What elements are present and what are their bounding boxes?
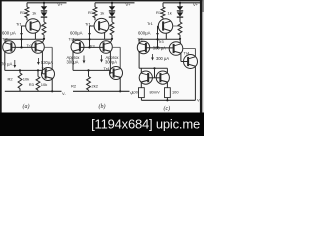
svg-text:1k: 1k: [168, 10, 172, 15]
wire: (b) R1 top lead: [94, 3, 96, 7]
wire: (c) vertical base bias wire with 600uA arrow: [157, 26, 159, 48]
node: (c) diode branch bottom junction: [179, 38, 181, 40]
diode chain (b): top connection: [111, 3, 113, 6]
svg-text:R3: R3: [29, 82, 35, 87]
resistor R2 (b): [88, 70, 90, 76]
wire: (c) R1 to Tr1 collector: [162, 18, 164, 20]
wire: (c) base drop to Tr5/Tr6: [154, 68, 156, 78]
wire: (b) vertical base bias wire with 600uA arrow: [89, 26, 91, 47]
svg-text:V+: V+: [126, 2, 132, 7]
paper background: [0, 0, 204, 136]
wire: (c) left resistor to rail: [140, 98, 142, 101]
svg-text:Tr4: Tr4: [42, 66, 49, 71]
wire: circuit (c) V+ top rail: [163, 2, 202, 4]
wire: circuit (a) V+ top rail: [27, 2, 67, 4]
wire: circuit (b) V+ top rail: [95, 2, 135, 4]
photo frame top edge: [0, 0, 204, 1]
svg-text:Tr3: Tr3: [158, 40, 164, 44]
diode chain (c): top connection: [179, 3, 181, 6]
svg-text:600μA: 600μA: [138, 30, 151, 35]
svg-text:2k2: 2k2: [92, 84, 99, 89]
wire: (c) Tr2 collector up: [138, 39, 140, 43]
node: (a) R2 top junction: [19, 69, 21, 71]
svg-text:Tr4: Tr4: [104, 66, 111, 71]
wire: (a) Tr1 right stub to diode branch: [40, 25, 44, 27]
wire: (b) Tr4 collector up: [119, 47, 121, 68]
wire: (c) resistor bottom: [179, 35, 181, 39]
svg-text:80mV: 80mV: [150, 90, 161, 95]
svg-text:1k: 1k: [32, 10, 36, 15]
resistor (a) diode-branch: [42, 22, 46, 35]
wire: (b) Tr1 base lead: [90, 25, 95, 27]
wire: (b) Tr2 emitter down: [72, 51, 74, 70]
svg-text:V+: V+: [193, 2, 199, 7]
wire: (c) Tr3 collector to diode branch: [179, 39, 182, 44]
transistor Tr2 (c): [137, 41, 149, 53]
wire: (b) Tr3 collector to diode branch: [110, 39, 112, 42]
transistor Tr5 (c): [139, 71, 152, 84]
transistor Tr1 (b): [94, 18, 109, 33]
svg-text:10k: 10k: [41, 82, 47, 87]
wire: (c) mirror node horizontal wire: [139, 67, 167, 69]
svg-text:V+: V+: [58, 2, 64, 7]
diode chain (a): top connection: [43, 3, 45, 6]
svg-text:100: 100: [172, 89, 179, 94]
node: (a) R3 top junction: [37, 69, 39, 71]
svg-text:R1: R1: [156, 10, 162, 15]
wire: (a) R1 top lead: [26, 3, 28, 7]
diode D1 (b): [109, 6, 115, 10]
wire: (c) Tr4 emitter down to rail: [194, 66, 196, 100]
node: (a) top rail junction: [43, 2, 45, 4]
svg-text:600μA: 600μA: [70, 30, 83, 35]
wire: (c) Tr1 base lead: [157, 25, 160, 27]
node: (a) bias wire junction: [20, 38, 22, 40]
photo frame left edge: [0, 0, 2, 113]
arrow 300uA (c): [152, 54, 154, 59]
transistor Tr1 (c): [158, 19, 172, 33]
resistor 100 right (c) box style: [165, 88, 171, 98]
wire: (c) right resistor to rail: [166, 98, 168, 101]
wire: (a) Tr4 base lead: [42, 73, 45, 75]
wire: (c) Tr3 to Tr4 collector link: [183, 48, 196, 50]
wire: (a) Tr3 collector to diode branch: [42, 39, 44, 42]
node: (a) base rail junction: [20, 46, 22, 48]
wire: (a) resistor bottom: [43, 35, 45, 39]
arrow 530 uA (a): [37, 58, 39, 64]
svg-text:(c): (c): [164, 105, 171, 112]
wire: (a) Tr1 emitter drop: [34, 33, 36, 39]
svg-text:R1: R1: [88, 10, 94, 15]
wire: (b) diodes to resistor: [111, 17, 113, 22]
wire: (c) R1 top lead: [162, 3, 164, 7]
bottom watermark bar: [0, 113, 204, 137]
wire: (c) Tr1 right stub to diode branch: [173, 25, 180, 27]
diode D1 (a): [41, 6, 47, 10]
resistor (b) diode-branch: [110, 22, 114, 35]
arrow right 300uA (b): [101, 55, 103, 61]
wire: (b) R1 to Tr1 collector: [94, 18, 96, 21]
transistor Tr1 (a): [26, 19, 41, 34]
svg-text:300 μA: 300 μA: [156, 56, 169, 61]
transistor Tr2 (a): [3, 41, 16, 54]
wire: (a) Tr3 to Tr4 collector link: [44, 46, 52, 48]
wire: (c) Tr4 base lead: [181, 61, 188, 63]
wire: (a) Tr3 emitter down: [41, 51, 43, 73]
svg-text:R2: R2: [8, 76, 14, 81]
wire: (a) vertical base bias wire with 600uA arrow: [21, 26, 23, 47]
svg-text:300μA: 300μA: [105, 60, 117, 65]
wire: (b) Tr3 emitter down: [109, 51, 111, 73]
wire: (a) V- bottom rail: [5, 90, 62, 92]
wire: (c) Tr5-Tr6 base link: [148, 77, 160, 79]
wire: (a) diodes to resistor: [43, 17, 45, 22]
resistor R2 (a): [19, 70, 21, 73]
wire: (c) Tr5 collector up: [140, 68, 142, 73]
node: (b) bias wire junction: [88, 38, 90, 40]
transistor Tr4 (c): [184, 55, 198, 69]
node: (b) base rail junction: [88, 46, 90, 48]
svg-text:(a): (a): [23, 103, 30, 110]
wire: (a) lower horizontal wire: [5, 69, 43, 71]
wire: (b) Tr1 emitter drop: [104, 33, 106, 39]
wire: (b) lower horizontal wire: [73, 69, 110, 71]
svg-text:300μA: 300μA: [67, 60, 79, 65]
svg-text:600 μA: 600 μA: [2, 30, 16, 35]
resistor (c) diode-branch: [178, 22, 182, 35]
svg-text:530μA: 530μA: [41, 60, 53, 65]
transistor Tr4 (a): [42, 68, 55, 81]
resistor 100 left (c) box style: [139, 88, 145, 98]
svg-text:Tr2: Tr2: [137, 37, 143, 41]
wire: (c) Tr6 collector up: [166, 68, 168, 73]
diode D2 (c): [179, 11, 181, 13]
svg-text:1k: 1k: [100, 10, 104, 15]
node: (a) emitter-rail junction: [51, 90, 53, 92]
wire: (b) Tr1 right stub to diode branch: [109, 25, 112, 27]
node: (c) rail junction: [166, 99, 168, 101]
svg-text:70 μA: 70 μA: [1, 62, 12, 67]
node: (b) diode branch bottom junction: [111, 38, 113, 40]
resistor R1 (c): [161, 7, 165, 18]
transistor Tr3 (b): [100, 41, 113, 54]
wire: (b) V- bottom rail: [73, 90, 130, 92]
wire: (b) resistor bottom: [111, 35, 113, 39]
resistor R1 (a): [25, 7, 29, 18]
svg-text:Tr4: Tr4: [184, 51, 191, 56]
svg-text:[1194x684] upic.me: [1194x684] upic.me: [91, 117, 200, 132]
node: (c) top rail junction: [179, 2, 181, 4]
diode D2 (b): [111, 11, 113, 13]
wire: (c) base rail Tr2-Tr3: [146, 47, 173, 49]
wire: (b) Tr3 to Tr4 collector link: [112, 46, 120, 48]
svg-text:(b): (b): [99, 103, 106, 110]
node: (b) emitter-rail junction: [119, 90, 121, 92]
wire: (c) Tr3 emitter down: [180, 53, 182, 61]
node: (b) top rail junction: [111, 2, 113, 4]
transistor Tr4 (b): [110, 67, 123, 80]
node: (c) bias wire junction: [156, 38, 158, 40]
svg-text:100: 100: [131, 89, 138, 94]
svg-text:R2: R2: [71, 84, 77, 89]
photo frame right edge: [200, 0, 203, 113]
wire: (b) horizontal node wire: [73, 38, 112, 40]
wire: (a) Tr2 collector up: [4, 39, 6, 42]
wire: (b) Tr2 collector up: [72, 39, 74, 42]
node: (c) base rail junction: [156, 47, 158, 49]
wire: (a) R1 to Tr1 collector: [26, 18, 28, 21]
node: (a) diode branch bottom junction: [43, 38, 45, 40]
arrow left 300uA (b): [83, 56, 85, 63]
wire: (a) horizontal node wire: [5, 38, 44, 40]
transistor Tr3 (a): [32, 41, 45, 54]
wire: (c) diodes to resistor: [179, 17, 181, 22]
transistor Tr2 (b): [71, 40, 84, 53]
svg-text:Tr1: Tr1: [147, 21, 154, 26]
wire: (a) Tr2 emitter down: [4, 51, 6, 70]
wire: (b) base rail Tr2-Tr3: [80, 46, 103, 48]
wire: (b) Tr4 emitter down: [119, 78, 121, 92]
wire: (a) base rail Tr2-Tr3: [12, 46, 36, 48]
wire: (b) Tr4 base lead: [110, 72, 113, 74]
resistor R1 (b): [93, 7, 97, 18]
wire: (c) horizontal node wire: [139, 38, 180, 40]
resistor R3 (a): [37, 70, 39, 76]
wire: (a) Tr4 emitter down: [51, 79, 53, 92]
wire: (c) Tr1 emitter drop: [165, 33, 167, 39]
svg-text:V-: V-: [62, 91, 66, 96]
wire: (c) Tr6 emitter down: [166, 82, 168, 87]
wire: (a) Tr1 base lead: [22, 25, 27, 27]
node: (c) mirror base junction: [153, 67, 155, 69]
node: (b) R2 top junction: [87, 69, 89, 71]
wire: (c) Tr4 collector up: [194, 49, 196, 57]
arrow 70 uA (a): [14, 60, 16, 67]
svg-text:R1: R1: [20, 10, 26, 15]
transistor Tr3 (c): [169, 42, 183, 56]
wire: (c) Tr5 emitter down: [140, 82, 142, 87]
svg-text:10k: 10k: [23, 76, 29, 81]
diode D2 (a): [43, 11, 45, 13]
transistor Tr6 (c): [156, 71, 169, 84]
wire: (c) Tr2 emitter down: [138, 52, 140, 68]
svg-text:300 μA: 300 μA: [153, 45, 166, 50]
wire: (a) Tr4 collector up: [51, 47, 53, 69]
wire: (c) V- bottom rail: [141, 99, 195, 101]
diode D1 (c): [177, 6, 183, 10]
